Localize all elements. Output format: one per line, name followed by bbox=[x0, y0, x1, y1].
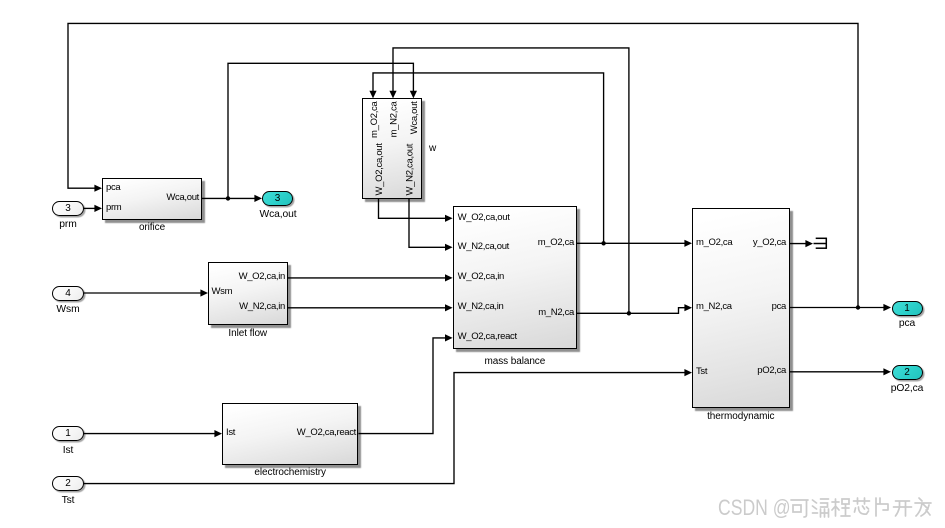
wire w W_O2,ca,out -> mass balance bbox=[379, 199, 447, 219]
watermark CSDN text bbox=[718, 497, 791, 519]
wire orifice Wca,out -> out port 3 bbox=[202, 197, 256, 199]
thermodynamic pin label m_O2,ca bbox=[696, 237, 732, 248]
arrowhead w top m_O2,ca bbox=[369, 91, 376, 99]
arrowhead w top m_N2,ca bbox=[389, 91, 396, 99]
arrowhead into mass W_O2,ca,react bbox=[445, 334, 453, 341]
arrowhead into out port 1 pca bbox=[883, 304, 891, 311]
wire electro W_O2,ca,react -> mass balance bbox=[358, 338, 446, 434]
thermodynamic block bbox=[692, 208, 790, 408]
arrowhead into orifice prm bbox=[94, 205, 102, 212]
thermodynamic pin label pca bbox=[726, 301, 786, 312]
wire m_O2 feedback: mass m_O2 junction -> up -> left -> w top input bbox=[373, 73, 604, 243]
watermark glyph 可 bbox=[791, 500, 808, 517]
port 1 name label Ist bbox=[38, 445, 98, 456]
svg-text:W_N2,ca,out: W_N2,ca,out bbox=[405, 143, 416, 195]
wire Wca,out feedback: junction -> up -> right -> w top input bbox=[228, 63, 413, 198]
output port 1 pca bbox=[892, 301, 923, 317]
wire w W_N2,ca,out -> mass balance bbox=[409, 199, 447, 248]
wire mass m_N2,ca -> thermodynamic (with jog) bbox=[577, 308, 686, 314]
wire thermo pca -> out port 1 bbox=[790, 307, 886, 309]
arrowhead into mass W_N2,ca,in bbox=[445, 304, 453, 311]
w block rotated port labels bbox=[369, 100, 420, 195]
Inlet flow block name bbox=[208, 328, 288, 339]
electrochemistry block bbox=[222, 403, 358, 465]
mass balance pin label W_N2,ca,out bbox=[458, 241, 509, 252]
output port 2 pO2,ca bbox=[892, 365, 923, 381]
outport 3 name label Wca,out bbox=[248, 209, 308, 220]
wire Inlet W_N2,ca,in -> mass balance bbox=[288, 307, 447, 309]
orifice pin label pca bbox=[106, 182, 120, 193]
port 2 name label Tst bbox=[38, 495, 98, 506]
wire Tst port2 -> thermodynamic bbox=[84, 373, 686, 484]
mass balance block name bbox=[453, 356, 578, 367]
thermodynamic pin label Tst bbox=[696, 366, 707, 377]
port 4 name label Wsm bbox=[38, 304, 98, 315]
wire Inlet W_O2,ca,in -> mass balance bbox=[288, 277, 447, 279]
thermodynamic pin label m_N2,ca bbox=[696, 301, 732, 312]
orifice pin label Wca,out bbox=[139, 192, 199, 203]
input port 3 prm bbox=[52, 201, 84, 216]
wire Wsm port4 -> Inlet flow bbox=[84, 292, 201, 294]
watermark glyph 片 bbox=[876, 498, 888, 516]
arrowhead into orifice pca bbox=[94, 185, 102, 192]
electrochemistry pin label W_O2,ca,react bbox=[276, 427, 356, 438]
orifice block name bbox=[102, 222, 202, 233]
Inlet flow pin label Wsm bbox=[212, 286, 233, 297]
wire prm port3 -> orifice bbox=[84, 207, 96, 209]
arrowhead into mass W_O2,ca,out bbox=[445, 215, 453, 222]
mass balance pin label W_O2,ca,in bbox=[458, 271, 504, 282]
watermark chinese glyphs bbox=[790, 496, 936, 522]
watermark glyph 开 bbox=[894, 501, 912, 516]
mass balance pin label m_O2,ca bbox=[514, 237, 574, 248]
svg-text:m_N2,ca: m_N2,ca bbox=[388, 100, 399, 137]
wire thermo y_O2,ca -> terminator bbox=[790, 243, 807, 245]
arrowhead into thermo m_N2,ca bbox=[684, 304, 692, 311]
wire pca feedback: thermo pca junction -> top -> left -> orifice pca input bbox=[68, 23, 858, 307]
arrowhead into Inlet flow Wsm bbox=[200, 289, 208, 296]
arrowhead into mass W_N2,ca,out bbox=[445, 244, 453, 251]
orifice block bbox=[102, 178, 202, 220]
arrowhead into out port 3 Wca,out bbox=[254, 195, 262, 202]
watermark glyph 程 bbox=[832, 499, 850, 516]
electrochemistry block name bbox=[222, 467, 358, 478]
Inlet flow pin label W_N2,ca,in bbox=[225, 301, 285, 312]
thermodynamic pin label y_O2,ca bbox=[726, 237, 786, 248]
wire Ist port1 -> electrochemistry bbox=[84, 433, 216, 435]
port 3 name label prm bbox=[38, 219, 98, 230]
input port 4 Wsm bbox=[52, 286, 84, 301]
arrowhead w top Wca,out bbox=[410, 91, 417, 99]
watermark glyph 芯 bbox=[854, 498, 870, 514]
input port 1 Ist bbox=[52, 426, 84, 441]
w block bbox=[362, 98, 422, 198]
outport 2 name label pO2,ca bbox=[877, 383, 937, 394]
mass balance pin label W_O2,ca,react bbox=[458, 331, 517, 342]
terminator symbol after y_O2,ca bbox=[814, 238, 827, 249]
svg-text:Wca,out: Wca,out bbox=[409, 101, 420, 134]
thermodynamic block name bbox=[692, 411, 790, 422]
wire thermo pO2,ca -> out port 2 bbox=[790, 371, 886, 373]
mass balance pin label W_O2,ca,out bbox=[458, 212, 510, 223]
Inlet flow block bbox=[208, 262, 288, 325]
mass balance block bbox=[453, 206, 578, 349]
electrochemistry pin label Ist bbox=[226, 427, 235, 438]
mass balance pin label m_N2,ca bbox=[514, 307, 574, 318]
arrowhead into terminator bbox=[805, 240, 813, 247]
arrowhead into thermo Tst bbox=[684, 369, 692, 376]
junction on Wca,out wire bbox=[226, 196, 230, 200]
input port 2 Tst bbox=[52, 476, 84, 491]
arrowhead into out port 2 pO2,ca bbox=[883, 368, 891, 375]
svg-text:m_O2,ca: m_O2,ca bbox=[369, 100, 380, 137]
arrowhead into electro Ist bbox=[214, 430, 222, 437]
junction on m_N2,ca wire bbox=[627, 311, 631, 315]
output port 3 Wca,out bbox=[262, 191, 293, 207]
watermark glyph 编 bbox=[813, 499, 829, 517]
arrowhead into mass W_O2,ca,in bbox=[445, 274, 453, 281]
Inlet flow pin label W_O2,ca,in bbox=[225, 271, 285, 282]
wire mass m_O2,ca -> thermodynamic bbox=[577, 242, 686, 244]
thermodynamic pin label pO2,ca bbox=[726, 365, 786, 376]
arrowhead into thermo m_O2,ca bbox=[684, 240, 692, 247]
junction on m_O2,ca wire bbox=[601, 241, 605, 245]
wire m_N2 feedback: mass m_N2 junction -> up -> left -> w top input bbox=[393, 48, 629, 313]
orifice pin label prm bbox=[106, 202, 121, 213]
mass balance pin label W_N2,ca,in bbox=[458, 301, 504, 312]
outport 1 name label pca bbox=[877, 318, 937, 329]
junction on pca wire bbox=[856, 305, 860, 309]
w block name bbox=[429, 143, 436, 154]
watermark glyph 发 bbox=[915, 498, 931, 516]
svg-text:W_O2,ca,out: W_O2,ca,out bbox=[374, 143, 385, 196]
